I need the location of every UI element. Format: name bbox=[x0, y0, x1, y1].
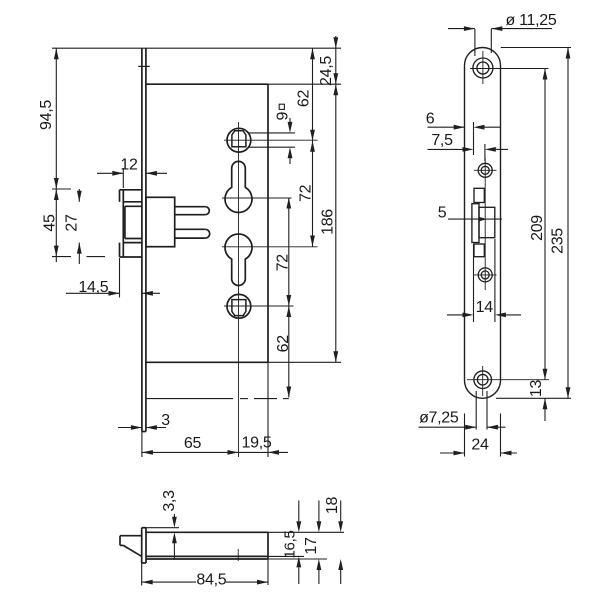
dim 84,5 bbox=[141, 563, 143, 586]
dim 6 bbox=[428, 126, 465, 128]
dim 17 bbox=[318, 501, 320, 522]
dim 7,5 extension line bbox=[484, 144, 486, 161]
svg-text:19,5: 19,5 bbox=[242, 435, 272, 452]
cylinder axis tick in bottom view bbox=[237, 549, 239, 561]
dim 12 line+arrows bbox=[97, 172, 123, 174]
dim 13 lower arrow bbox=[544, 398, 546, 421]
spindle pin 2 bbox=[175, 228, 206, 230]
euro cylinder hole E2 (small end down) bbox=[225, 234, 252, 286]
latch opening narrow strip bbox=[472, 204, 479, 243]
E2 horizontal centerline bbox=[222, 246, 318, 248]
ext lines bottom view right bbox=[268, 531, 344, 533]
latch opening box bbox=[479, 207, 495, 237]
svg-text:ø 11,25: ø 11,25 bbox=[506, 12, 557, 29]
svg-text:9: 9 bbox=[274, 112, 291, 121]
bottom view plate-top ext for 3,3 bbox=[146, 527, 179, 529]
extension of case right edge down to 19,5 dim bbox=[267, 362, 269, 457]
svg-text:16,5: 16,5 bbox=[281, 531, 298, 559]
bottom view faceplate bbox=[141, 528, 143, 563]
euro cylinder hole E1 (small end up) bbox=[225, 161, 252, 212]
dim 12 extension line bbox=[122, 168, 124, 188]
svg-text:7,5: 7,5 bbox=[431, 132, 453, 149]
lock case side view: faceplate bbox=[141, 48, 143, 431]
svg-text:3,3: 3,3 bbox=[161, 490, 178, 512]
square 9 extension lines bbox=[248, 132, 295, 134]
dim 24 bbox=[464, 414, 466, 457]
svg-text:6: 6 bbox=[426, 111, 435, 128]
dashed reference line at lower 62 dimension bbox=[146, 398, 233, 400]
svg-text:186: 186 bbox=[320, 209, 337, 235]
svg-text:65: 65 bbox=[184, 435, 202, 452]
svg-text:17: 17 bbox=[303, 537, 320, 555]
svg-text:14: 14 bbox=[476, 299, 494, 316]
latch bolt inner face bbox=[124, 206, 126, 238]
upper small screw hole inner bbox=[481, 166, 489, 174]
svg-text:14,5: 14,5 bbox=[78, 279, 108, 296]
spindle hub box behind faceplate bbox=[146, 197, 175, 246]
strike plate middle vertical centerline bbox=[484, 158, 486, 290]
svg-text:27: 27 bbox=[64, 214, 81, 232]
dim 65 / 19,5 line bbox=[142, 451, 288, 453]
dim 235 line bbox=[567, 48, 569, 399]
ext lines for 45 bbox=[52, 188, 71, 190]
follower F1 horizontal centerline bbox=[224, 139, 318, 141]
lower small screw hole inner bbox=[481, 271, 489, 279]
top hole horizontal centerline / ext to 209 bbox=[470, 68, 549, 70]
strike plate outline bbox=[465, 48, 501, 399]
extension of case bottom to dim line 186 bbox=[268, 361, 341, 363]
svg-text:94,5: 94,5 bbox=[38, 100, 55, 130]
follower square hole F1 (9mm square, chamfered top corners) bbox=[232, 131, 246, 147]
dim 14 bbox=[447, 314, 464, 316]
top fixing hole inner bbox=[477, 62, 489, 74]
dim 14 extension lines bbox=[473, 244, 475, 322]
extension of case top to dim line 24,5/186 bbox=[268, 83, 341, 85]
dim 27 line+arrows bbox=[78, 189, 80, 202]
dim chain 72/62 line B bbox=[288, 198, 290, 398]
dim 3 line+arrows bbox=[118, 427, 142, 429]
svg-text:72: 72 bbox=[298, 184, 315, 202]
svg-text:84,5: 84,5 bbox=[196, 572, 226, 589]
svg-text:ø7,25: ø7,25 bbox=[419, 410, 459, 427]
faceplate break tick bbox=[138, 65, 150, 67]
svg-text:62: 62 bbox=[296, 90, 313, 108]
svg-text:13: 13 bbox=[528, 380, 545, 398]
svg-text:12: 12 bbox=[120, 157, 138, 174]
bottom hole vertical centerline bbox=[482, 366, 484, 396]
svg-text:24: 24 bbox=[471, 437, 489, 454]
svg-text:62: 62 bbox=[275, 335, 292, 353]
dim square-9 arrows bbox=[289, 118, 291, 123]
dim 6 extension line bbox=[473, 122, 475, 155]
lock case outline bbox=[146, 83, 268, 85]
dim 18 bbox=[340, 501, 342, 522]
dim 14,5 extension line bbox=[119, 258, 121, 298]
upper small cutout rect bbox=[474, 188, 484, 202]
bottom view latch bolt bbox=[120, 535, 142, 537]
dim 5 leader line bbox=[448, 218, 502, 220]
dim chain 62/72 line A bbox=[312, 48, 314, 246]
upper small screw hole outer bbox=[478, 163, 492, 177]
svg-text:209: 209 bbox=[529, 215, 546, 241]
extension line top (y=48) bbox=[52, 47, 341, 49]
lower small hole tick bbox=[474, 274, 497, 276]
upper small hole tick bbox=[474, 169, 497, 171]
top hole vertical centerline bbox=[482, 51, 484, 84]
top fixing hole outer bbox=[473, 58, 493, 78]
spindle pin 1 bbox=[175, 206, 206, 208]
dim square-9 label: small square symbol bbox=[279, 104, 284, 109]
bottom fixing hole outer bbox=[474, 371, 492, 389]
dim 94,5 / 45 line bbox=[55, 48, 57, 262]
plate bottom tangent ext line bbox=[496, 397, 571, 399]
dim 7,5 bbox=[428, 148, 464, 150]
svg-text:24,5: 24,5 bbox=[318, 56, 335, 86]
dim 3,3 bbox=[173, 514, 175, 520]
follower square hole F1 (circle) bbox=[227, 128, 251, 152]
vertical centerline of cylinder axis bbox=[238, 122, 240, 457]
bottom hole horizontal centerline / ext to 209-13 bbox=[467, 379, 549, 381]
dim 24,5 / 186 line C bbox=[335, 36, 337, 362]
plate top tangent ext line bbox=[501, 47, 571, 49]
dim 16,5 bbox=[298, 501, 300, 522]
svg-text:5: 5 bbox=[438, 205, 447, 222]
follower square hole F2 (square, chamfered bottom corners) bbox=[232, 300, 246, 316]
E1 horizontal centerline bbox=[222, 197, 292, 199]
bottom view case bbox=[146, 531, 268, 533]
svg-text:18: 18 bbox=[324, 497, 341, 515]
dim diameter 11,25 bbox=[474, 29, 476, 56]
svg-text:235: 235 bbox=[550, 228, 567, 254]
faceplate left extension line down to 65-dim bbox=[141, 432, 143, 458]
svg-text:45: 45 bbox=[42, 214, 59, 232]
svg-text:3: 3 bbox=[161, 412, 170, 429]
dim 209 line bbox=[544, 69, 546, 380]
dim 14,5 line+arrows bbox=[66, 292, 120, 294]
follower F2 horizontal centerline bbox=[224, 305, 294, 307]
lower small cutout rect bbox=[474, 244, 484, 257]
latch head front block bbox=[120, 189, 142, 191]
bottom fixing hole inner bbox=[477, 374, 488, 385]
dim diameter 7,25 bbox=[475, 391, 477, 430]
lower small screw hole outer bbox=[478, 268, 492, 282]
svg-text:72: 72 bbox=[275, 254, 292, 272]
follower square hole F2 (circle) bbox=[227, 294, 251, 318]
